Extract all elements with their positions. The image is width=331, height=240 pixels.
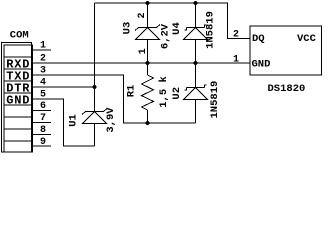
svg-text:1,5 k: 1,5 k	[158, 76, 170, 108]
svg-text:2: 2	[137, 12, 148, 18]
svg-text:VCC: VCC	[297, 33, 317, 45]
svg-text:9: 9	[40, 137, 46, 148]
svg-text:1N5819: 1N5819	[205, 11, 217, 49]
svg-text:6,2V: 6,2V	[160, 23, 172, 49]
svg-text:3,9V: 3,9V	[105, 107, 117, 133]
svg-text:1: 1	[233, 55, 239, 66]
svg-text:DS1820: DS1820	[268, 83, 306, 95]
svg-text:U4: U4	[171, 22, 183, 35]
svg-text:5: 5	[40, 90, 46, 101]
svg-text:1: 1	[138, 48, 149, 54]
svg-text:1: 1	[40, 41, 46, 52]
svg-text:2: 2	[233, 30, 239, 41]
svg-text:7: 7	[40, 113, 46, 124]
svg-text:6: 6	[40, 101, 46, 112]
svg-text:U3: U3	[122, 22, 134, 35]
svg-text:8: 8	[40, 125, 46, 136]
svg-text:1N5819: 1N5819	[209, 81, 221, 119]
svg-text:R1: R1	[126, 85, 138, 98]
svg-text:U2: U2	[171, 87, 183, 100]
svg-text:2: 2	[40, 54, 46, 65]
svg-text:4: 4	[40, 78, 46, 89]
svg-text:3: 3	[40, 66, 46, 77]
svg-text:DQ: DQ	[252, 33, 265, 45]
svg-text:U1: U1	[68, 114, 80, 127]
svg-text:GND: GND	[252, 59, 271, 71]
svg-text:COM: COM	[10, 30, 29, 42]
svg-text:GND: GND	[6, 94, 29, 108]
